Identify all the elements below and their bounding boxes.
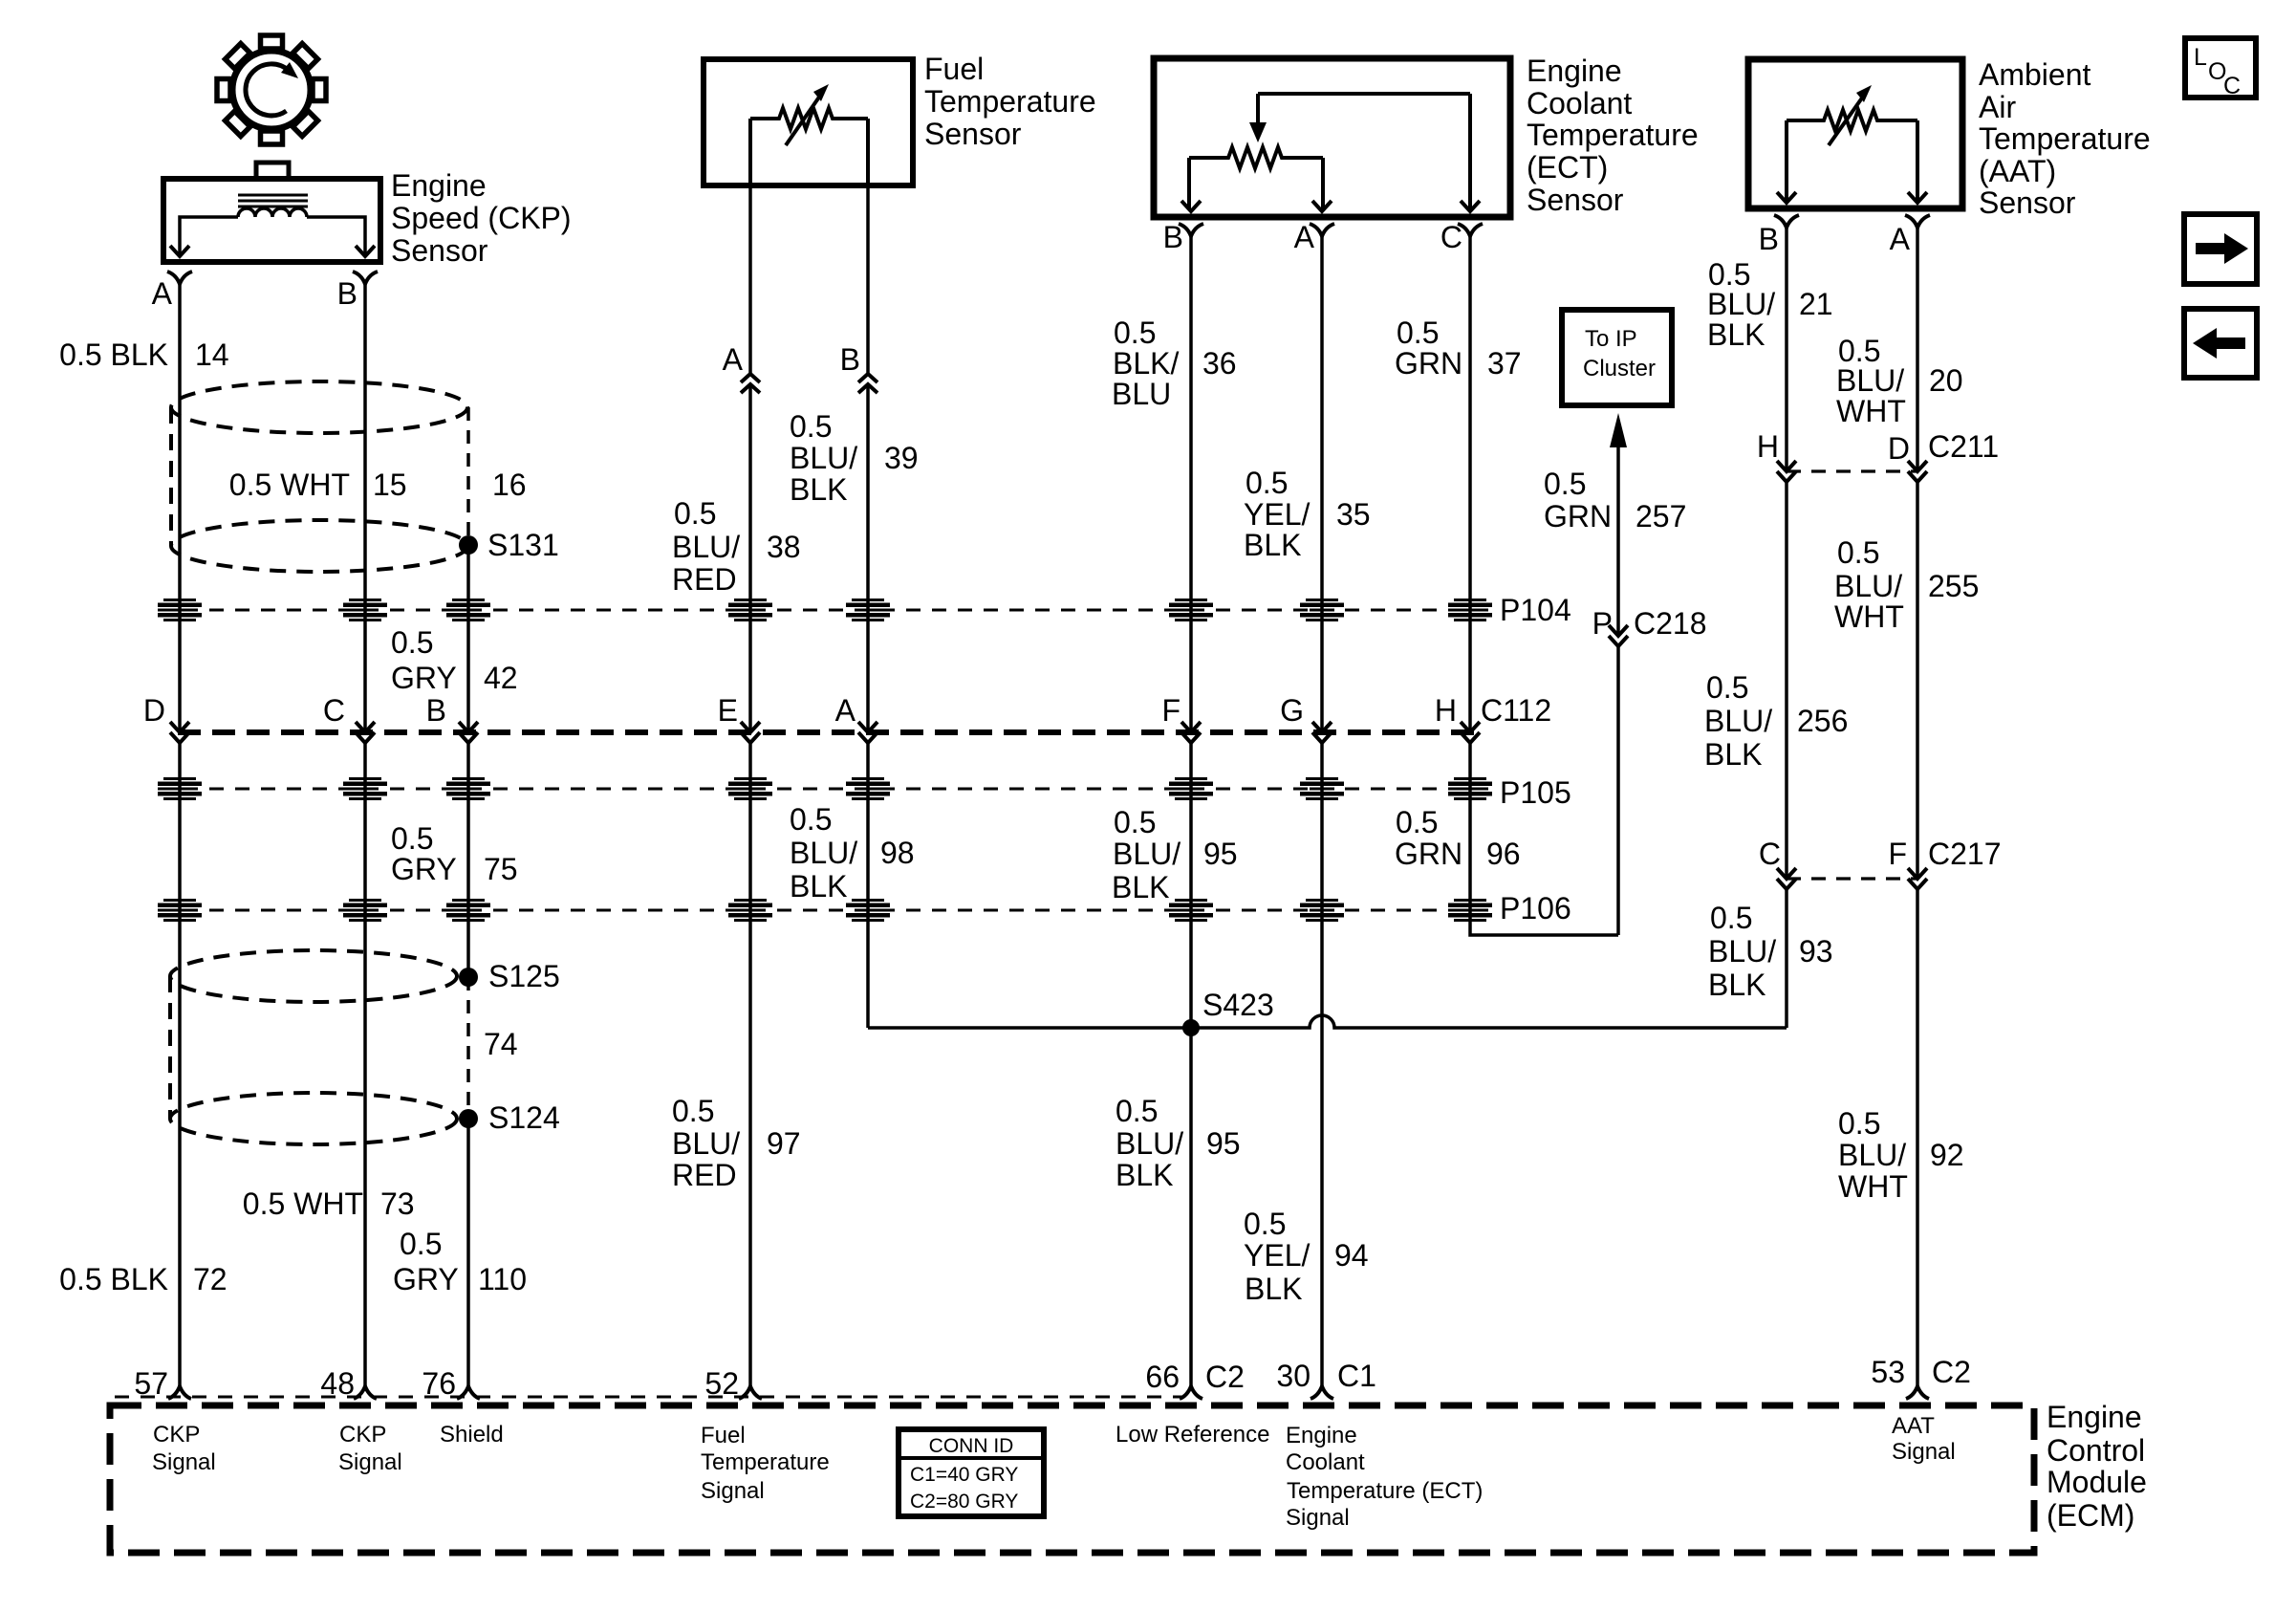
svg-text:WHT: WHT — [1838, 1169, 1908, 1204]
svg-text:256: 256 — [1797, 704, 1848, 738]
svg-text:S125: S125 — [488, 959, 560, 993]
svg-text:96: 96 — [1486, 837, 1521, 871]
CKP coil leads — [180, 217, 238, 254]
svg-text:66: 66 — [1145, 1360, 1180, 1394]
svg-text:0.5: 0.5 — [672, 1094, 714, 1128]
svg-text:94: 94 — [1334, 1238, 1369, 1273]
svg-text:A: A — [723, 342, 744, 377]
svg-text:0.5: 0.5 — [1114, 805, 1156, 839]
svg-text:BLU/: BLU/ — [1838, 1138, 1906, 1172]
svg-text:Sensor: Sensor — [924, 117, 1022, 151]
svg-text:AAT: AAT — [1892, 1413, 1935, 1439]
fuel sensor resistor legs — [748, 119, 752, 184]
ECT resistor — [1189, 147, 1323, 168]
svg-text:BLU: BLU — [1112, 377, 1171, 411]
svg-text:C112: C112 — [1481, 693, 1551, 728]
svg-text:Sensor: Sensor — [1979, 185, 2076, 220]
svg-text:YEL/: YEL/ — [1244, 1238, 1310, 1273]
shield cylinder upper — [171, 381, 467, 433]
svg-text:0.5: 0.5 — [1710, 901, 1752, 935]
connector C218 pin P — [1609, 625, 1628, 636]
wire: CKP signal B (0.5 WHT 15/73) — [363, 284, 367, 732]
svg-text:GRN: GRN — [1544, 499, 1612, 533]
CKP coil — [238, 208, 307, 217]
svg-text:BLK: BLK — [1707, 317, 1765, 352]
svg-text:95: 95 — [1203, 837, 1238, 871]
CKP pin connector B — [353, 272, 378, 284]
svg-text:GRY: GRY — [391, 852, 457, 886]
wire: ECT signal A (0.5 YEL/BLK 35/94) — [1320, 236, 1324, 732]
svg-text:C: C — [2223, 73, 2241, 99]
svg-text:36: 36 — [1202, 346, 1237, 381]
svg-text:0.5: 0.5 — [790, 802, 832, 837]
shield drain wire 16/42/75/74/110 — [466, 407, 470, 535]
svg-text:0.5: 0.5 — [391, 625, 433, 660]
svg-text:C218: C218 — [1634, 606, 1707, 641]
svg-text:0.5: 0.5 — [790, 409, 832, 444]
splice S124 — [459, 1109, 478, 1128]
svg-text:0.5: 0.5 — [1837, 535, 1879, 570]
svg-text:G: G — [1280, 693, 1304, 728]
svg-text:H: H — [1757, 429, 1779, 464]
svg-text:L: L — [2194, 44, 2207, 71]
svg-text:93: 93 — [1799, 934, 1833, 969]
wire: AAT signal A (0.5 BLU/WHT 20/255/92) — [1916, 228, 1919, 471]
svg-text:15: 15 — [373, 468, 407, 502]
CKP core lines — [238, 194, 308, 197]
svg-text:Cluster: Cluster — [1583, 356, 1656, 381]
svg-text:(ECM): (ECM) — [2047, 1498, 2134, 1533]
AAT resistor — [1787, 110, 1917, 131]
svg-text:0.5 BLK: 0.5 BLK — [59, 337, 168, 372]
svg-text:BLU/: BLU/ — [672, 530, 740, 564]
connector C211 — [1787, 469, 1917, 472]
shield cylinder lower — [170, 950, 457, 1002]
svg-text:0.5: 0.5 — [1396, 805, 1438, 839]
ECT pin connectors — [1179, 224, 1203, 236]
svg-text:C: C — [323, 693, 345, 728]
svg-text:B: B — [1759, 222, 1779, 256]
svg-text:RED: RED — [672, 1158, 737, 1192]
svg-text:Engine: Engine — [391, 168, 487, 203]
svg-text:GRY: GRY — [391, 661, 457, 695]
fuel pin connector A (double chevron) — [741, 374, 760, 393]
svg-text:Control: Control — [2047, 1433, 2145, 1468]
svg-text:72: 72 — [193, 1262, 227, 1296]
svg-text:0.5: 0.5 — [1838, 1106, 1880, 1141]
svg-text:16: 16 — [492, 468, 527, 502]
svg-text:0.5: 0.5 — [1544, 467, 1586, 501]
svg-text:Signal: Signal — [1892, 1439, 1956, 1465]
svg-text:0.5: 0.5 — [1245, 466, 1288, 500]
svg-text:74: 74 — [484, 1027, 518, 1061]
svg-text:BLU/: BLU/ — [1113, 837, 1180, 871]
svg-text:0.5: 0.5 — [1397, 316, 1439, 350]
svg-text:C: C — [1759, 837, 1781, 871]
svg-text:0.5 WHT: 0.5 WHT — [229, 468, 350, 502]
svg-text:B: B — [1163, 220, 1183, 254]
svg-text:A: A — [835, 693, 856, 728]
ECM pin sockets — [168, 1386, 191, 1399]
svg-text:(ECT): (ECT) — [1527, 150, 1608, 185]
svg-text:Coolant: Coolant — [1527, 86, 1632, 120]
wire: fuel temp low ref B (0.5 BLU/BLK 39/98) — [866, 185, 870, 374]
svg-text:(AAT): (AAT) — [1979, 154, 2056, 188]
svg-text:0.5: 0.5 — [391, 821, 433, 856]
svg-text:Temperature: Temperature — [701, 1449, 830, 1475]
CKP internal arrow A — [170, 246, 189, 256]
svg-text:Engine: Engine — [2047, 1400, 2142, 1434]
svg-text:0.5 BLK: 0.5 BLK — [59, 1262, 168, 1296]
svg-text:92: 92 — [1930, 1138, 1964, 1172]
svg-text:Fuel: Fuel — [701, 1423, 746, 1448]
svg-text:YEL/: YEL/ — [1244, 497, 1310, 532]
svg-text:BLU/: BLU/ — [672, 1126, 740, 1161]
svg-text:BLU/: BLU/ — [1708, 934, 1776, 969]
wire: ECT low ref B (0.5 BLK/BLU 36, BLU/BLK 95) — [1189, 236, 1193, 732]
svg-text:BLK: BLK — [1244, 528, 1301, 562]
svg-text:52: 52 — [704, 1366, 739, 1401]
svg-text:Fuel: Fuel — [924, 52, 984, 86]
svg-text:39: 39 — [884, 441, 919, 475]
CKP pin connector A — [167, 272, 192, 284]
CKP internal arrow B — [356, 246, 375, 256]
svg-text:42: 42 — [484, 661, 518, 695]
svg-text:37: 37 — [1487, 346, 1522, 381]
svg-text:BLU/: BLU/ — [1836, 363, 1904, 398]
svg-text:75: 75 — [484, 852, 518, 886]
svg-text:F: F — [1888, 837, 1907, 871]
svg-text:255: 255 — [1928, 569, 1979, 603]
svg-text:20: 20 — [1929, 363, 1963, 398]
svg-text:110: 110 — [478, 1262, 527, 1296]
svg-text:RED: RED — [672, 562, 737, 597]
svg-text:14: 14 — [195, 337, 229, 372]
svg-text:BLU/: BLU/ — [790, 836, 857, 870]
ECM box dashed border — [110, 1405, 2034, 1553]
connector C112 line — [178, 729, 1484, 735]
svg-text:B: B — [426, 693, 446, 728]
svg-text:BLU/: BLU/ — [1704, 704, 1772, 738]
AAT resistor legs — [1785, 120, 1788, 201]
svg-text:CKP: CKP — [153, 1422, 200, 1448]
svg-text:Air: Air — [1979, 90, 2016, 124]
svg-text:BLU/: BLU/ — [790, 441, 857, 475]
svg-text:73: 73 — [380, 1186, 415, 1221]
svg-text:0.5: 0.5 — [400, 1227, 442, 1261]
svg-text:Shield: Shield — [440, 1422, 504, 1448]
svg-text:Sensor: Sensor — [391, 233, 488, 268]
LOC legend box — [2185, 38, 2256, 98]
svg-text:H: H — [1435, 693, 1457, 728]
ECT internal top wire — [1258, 92, 1470, 96]
svg-text:BLK: BLK — [790, 869, 847, 903]
svg-text:Low Reference: Low Reference — [1116, 1422, 1269, 1448]
svg-text:257: 257 — [1635, 499, 1686, 533]
svg-text:BLU/: BLU/ — [1834, 569, 1902, 603]
svg-text:A: A — [1294, 220, 1315, 254]
svg-text:S131: S131 — [487, 528, 559, 562]
svg-text:Signal: Signal — [701, 1478, 765, 1504]
AAT pin connectors — [1774, 215, 1799, 228]
backward arrow box — [2184, 309, 2257, 378]
forward arrow box — [2184, 214, 2257, 284]
svg-text:BLU/: BLU/ — [1116, 1126, 1183, 1161]
connector C217 — [1787, 877, 1917, 880]
svg-text:P: P — [1592, 606, 1613, 641]
svg-text:C211: C211 — [1928, 429, 1999, 464]
wire: ECT sender C (0.5 GRN 37/96) — [1468, 236, 1472, 732]
AAT sensor box — [1748, 59, 1962, 208]
svg-text:Temperature: Temperature — [924, 84, 1096, 119]
svg-text:Temperature: Temperature — [1527, 118, 1699, 152]
svg-text:Coolant: Coolant — [1286, 1449, 1365, 1475]
svg-text:Engine: Engine — [1286, 1423, 1357, 1448]
svg-text:76: 76 — [422, 1366, 456, 1401]
splice S131 — [459, 535, 478, 555]
wire: AAT low ref B (0.5 BLU/BLK 21/256/93) — [1785, 228, 1788, 471]
fuel pin connector B (double chevron) — [858, 374, 877, 393]
svg-text:Temperature (ECT): Temperature (ECT) — [1287, 1478, 1483, 1504]
svg-text:CKP: CKP — [339, 1422, 386, 1448]
svg-text:F: F — [1161, 693, 1180, 728]
svg-text:BLK: BLK — [790, 472, 847, 507]
svg-text:0.5: 0.5 — [1116, 1094, 1158, 1128]
svg-text:Ambient: Ambient — [1979, 57, 2091, 92]
svg-text:98: 98 — [880, 836, 915, 870]
ECM connector face dashed line — [115, 1396, 1182, 1399]
ECT resistor legs — [1187, 158, 1191, 209]
svg-text:BLU/: BLU/ — [1707, 287, 1775, 321]
svg-text:Signal: Signal — [152, 1449, 216, 1475]
svg-text:Temperature: Temperature — [1979, 121, 2151, 156]
svg-text:35: 35 — [1336, 497, 1371, 532]
svg-text:0.5: 0.5 — [674, 496, 716, 531]
svg-text:A: A — [1890, 222, 1911, 256]
svg-text:C2: C2 — [1205, 1360, 1245, 1394]
svg-text:C: C — [1440, 220, 1462, 254]
svg-text:B: B — [337, 276, 357, 311]
svg-text:BLK/: BLK/ — [1113, 346, 1179, 381]
svg-text:C1: C1 — [1337, 1359, 1376, 1393]
svg-text:BLK: BLK — [1245, 1272, 1302, 1306]
ECT sensor box — [1154, 58, 1510, 217]
svg-text:D: D — [1888, 431, 1910, 466]
svg-text:C2: C2 — [1932, 1355, 1971, 1389]
svg-text:C2=80 GRY: C2=80 GRY — [910, 1491, 1018, 1513]
svg-text:P105: P105 — [1500, 775, 1571, 810]
svg-text:GRY: GRY — [393, 1262, 459, 1296]
svg-text:BLK: BLK — [1708, 968, 1765, 1002]
ECT wire C leg — [1468, 94, 1472, 209]
wire to IP cluster (0.5 GRN 257) — [1616, 442, 1620, 636]
svg-text:Sensor: Sensor — [1527, 183, 1624, 217]
S423 low-reference bus wire — [868, 1015, 1787, 1028]
svg-text:A: A — [152, 276, 173, 311]
svg-text:C1=40 GRY: C1=40 GRY — [910, 1464, 1018, 1486]
svg-text:0.5: 0.5 — [1706, 670, 1748, 705]
svg-text:95: 95 — [1206, 1126, 1241, 1161]
inline connector row P106 — [158, 909, 1491, 912]
ECT internal arrows — [1181, 201, 1201, 211]
gear / reluctor wheel icon — [217, 35, 326, 144]
inline connector row P105 — [158, 788, 1491, 791]
svg-text:B: B — [840, 342, 860, 377]
wire: fuel temp signal A (0.5 BLU/RED 38/97) — [748, 185, 752, 374]
svg-text:C217: C217 — [1928, 837, 2002, 871]
svg-text:BLK: BLK — [1116, 1158, 1173, 1192]
svg-text:S423: S423 — [1202, 988, 1274, 1022]
AAT internal arrows — [1777, 192, 1796, 203]
svg-text:BLK: BLK — [1704, 737, 1762, 772]
svg-text:0.5 WHT: 0.5 WHT — [243, 1186, 363, 1221]
svg-text:Signal: Signal — [338, 1449, 402, 1475]
AAT variable arrow — [1829, 97, 1863, 145]
svg-text:21: 21 — [1799, 287, 1833, 321]
svg-text:GRN: GRN — [1395, 837, 1462, 871]
svg-text:To IP: To IP — [1585, 326, 1637, 352]
svg-text:WHT: WHT — [1836, 394, 1906, 428]
CKP sensor box — [163, 179, 380, 262]
svg-text:53: 53 — [1871, 1355, 1905, 1389]
svg-text:Engine: Engine — [1527, 54, 1622, 88]
Fuel Temperature Sensor box — [704, 59, 913, 185]
svg-text:30: 30 — [1276, 1359, 1310, 1393]
svg-text:E: E — [718, 693, 738, 728]
svg-text:WHT: WHT — [1834, 599, 1904, 634]
svg-text:GRN: GRN — [1395, 346, 1462, 381]
wire: CKP signal A (0.5 BLK 14/72) — [178, 284, 182, 732]
fuel sensor resistor — [750, 108, 868, 129]
splice S125 — [459, 968, 478, 987]
To IP Cluster box — [1562, 310, 1672, 405]
splice S423 — [1182, 1019, 1200, 1036]
svg-text:Signal: Signal — [1286, 1505, 1350, 1531]
CONN ID table — [899, 1429, 1044, 1516]
svg-text:0.5: 0.5 — [1244, 1207, 1286, 1241]
svg-text:P104: P104 — [1500, 593, 1571, 627]
svg-text:0.5: 0.5 — [1114, 316, 1156, 350]
svg-text:Speed (CKP): Speed (CKP) — [391, 201, 572, 235]
svg-text:BLK: BLK — [1112, 870, 1169, 904]
svg-text:48: 48 — [320, 1366, 355, 1401]
svg-text:S124: S124 — [488, 1100, 560, 1135]
svg-text:57: 57 — [134, 1366, 168, 1401]
svg-text:P106: P106 — [1500, 891, 1571, 925]
svg-text:CONN ID: CONN ID — [929, 1435, 1014, 1457]
CKP sensor mounting tab — [256, 163, 289, 179]
fuel sensor variable arrow — [786, 96, 820, 145]
svg-text:Module: Module — [2047, 1465, 2147, 1499]
svg-text:D: D — [143, 693, 165, 728]
inline connector row P104 — [158, 609, 1491, 612]
svg-text:97: 97 — [767, 1126, 801, 1161]
svg-text:38: 38 — [767, 530, 801, 564]
